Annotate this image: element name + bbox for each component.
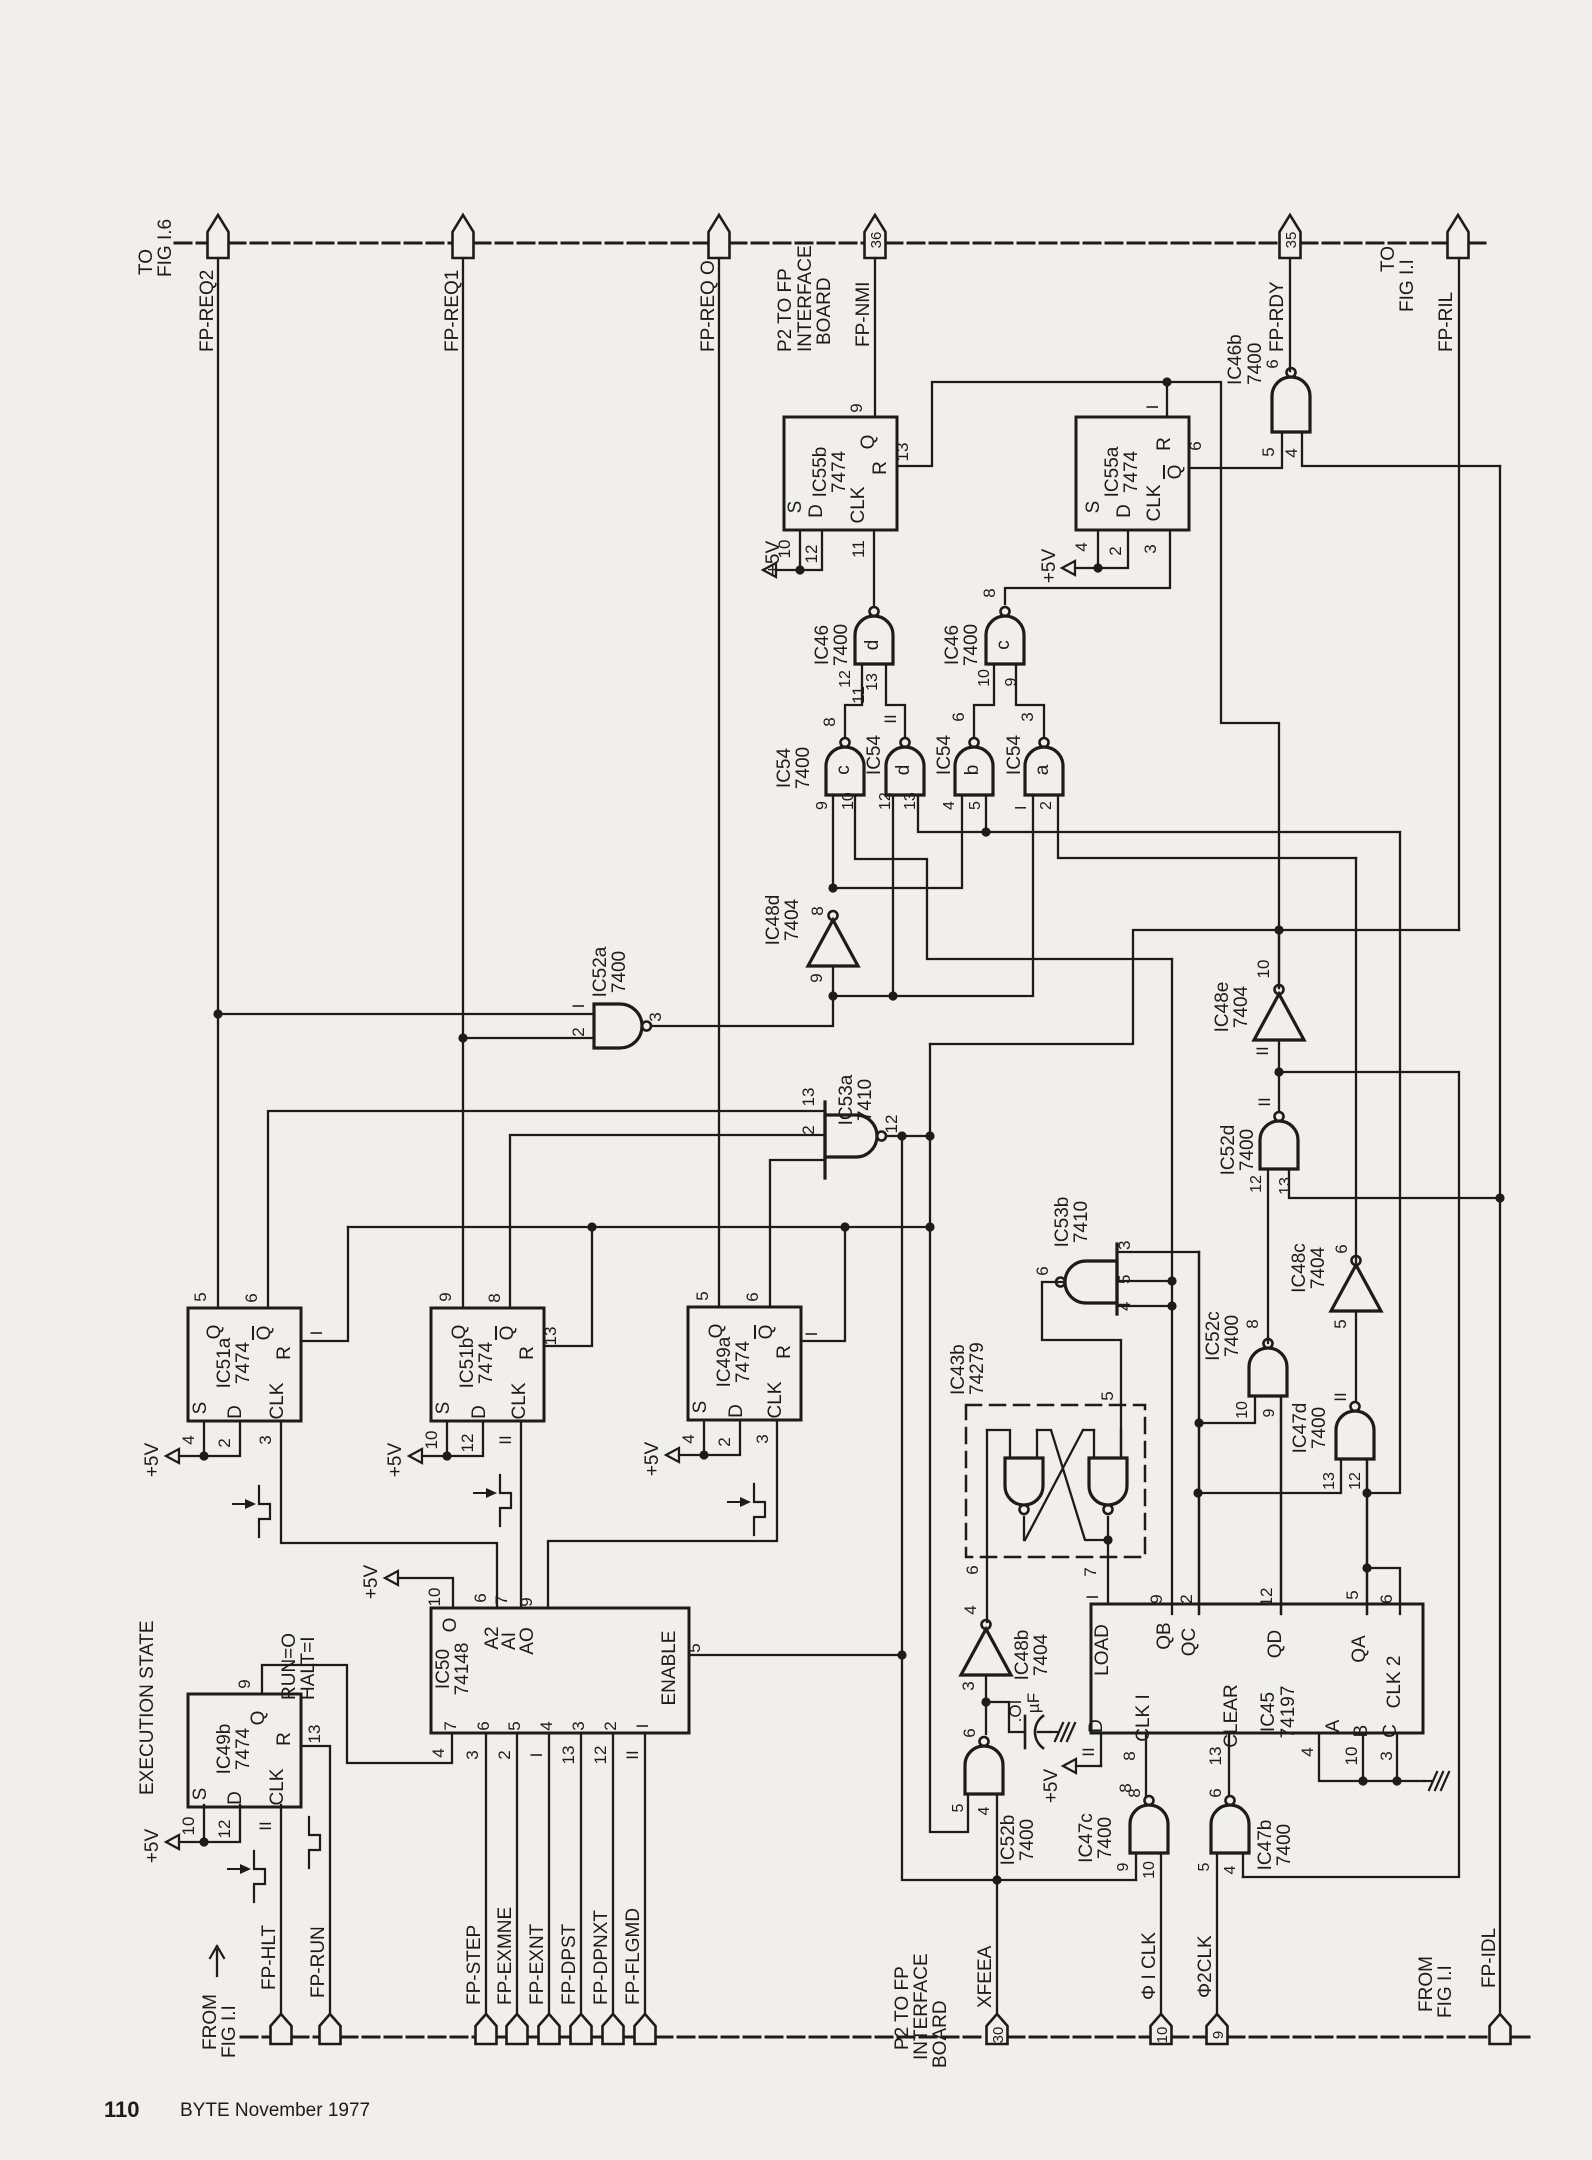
- pin labels IC46b: [1259, 359, 1301, 457]
- wire IC55a D pin 2 jog: [1098, 531, 1128, 568]
- junction QA/IC47d.12 upper: [1362, 1488, 1371, 1497]
- flip-flop IC51b 7474: [431, 1308, 544, 1421]
- node phi 1 CLK label: [1139, 1932, 1160, 2000]
- wire latch cross-coupling: [1024, 1430, 1108, 1540]
- svg-text:74279: 74279: [967, 1342, 988, 1395]
- wire IC49b CLK pin 11 to FP-HLT: [280, 1805, 282, 2014]
- svg-text:I: I: [527, 1753, 546, 1758]
- svg-text:9: 9: [1115, 1862, 1132, 1871]
- svg-text:4: 4: [961, 1605, 980, 1614]
- svg-text:FP-EXMNE: FP-EXMNE: [495, 1907, 516, 2005]
- svg-text:CLK: CLK: [267, 1382, 288, 1419]
- node IC53b designator: [1052, 1197, 1092, 1248]
- junction IC45 B ground: [1358, 1776, 1367, 1785]
- svg-text:I: I: [569, 1004, 588, 1009]
- wire IC50 input to FP-STEP: [485, 1733, 487, 2014]
- junction +5V IC51b: [442, 1451, 451, 1460]
- svg-text:6: 6: [1186, 441, 1205, 450]
- pin labels IC53b: [1033, 1241, 1134, 1311]
- pin labels IC52d: [1248, 1097, 1294, 1195]
- svg-text:D: D: [1086, 1719, 1107, 1733]
- svg-text:D: D: [806, 504, 827, 518]
- wire IC47b output 6 to IC45 CLEAR: [1228, 1733, 1230, 1796]
- svg-text:II: II: [1255, 1097, 1274, 1106]
- wire IC50 input to FP-EXNT: [548, 1733, 550, 2014]
- power +5V at IC50: [361, 1565, 398, 1600]
- wire IC49a Qbar to IC53a.1: [770, 1160, 825, 1307]
- svg-text:36: 36: [868, 232, 885, 249]
- svg-text:S: S: [190, 1788, 211, 1801]
- node FP-REQ2 label: [197, 270, 218, 352]
- pin labels IC52c: [1234, 1319, 1278, 1419]
- svg-text:7410: 7410: [1071, 1201, 1092, 1243]
- svg-text:9: 9: [1003, 677, 1020, 686]
- svg-text:IC47c: IC47c: [1076, 1813, 1097, 1863]
- wire IC51a D pin 2 jog: [204, 1421, 240, 1456]
- svg-text:Q: Q: [1165, 465, 1186, 480]
- svg-text:B: B: [1351, 1725, 1372, 1738]
- wire IC49b Q pin 9 to IC50 input 7: [262, 1665, 452, 1763]
- svg-text:4: 4: [537, 1721, 556, 1730]
- node FP-DPNXT label: [591, 1910, 612, 2005]
- svg-text:5: 5: [685, 1643, 704, 1652]
- connector FP-DPST: [571, 2014, 592, 2044]
- wire IC49b D pin 12 jog: [204, 1805, 240, 1842]
- svg-text:IC55a: IC55a: [1102, 446, 1123, 497]
- node EXECUTION STATE label: [137, 1620, 158, 1795]
- wire IC55b S pin 10: [799, 531, 801, 570]
- junction FP-REQ2 / IC52a input 1: [213, 1009, 222, 1018]
- svg-text:RUN=O: RUN=O: [279, 1633, 300, 1700]
- wire XFEEA line: [902, 1136, 1136, 1880]
- svg-text:10: 10: [1254, 960, 1273, 979]
- junction latch output pin 7: [1103, 1535, 1112, 1544]
- junction ENABLE / XFEEA line: [897, 1650, 906, 1659]
- pin labels IC48b: [959, 1605, 980, 1690]
- node FROM FIG 1.1 label (left): [200, 1994, 240, 2058]
- svg-text:IC47d: IC47d: [1290, 1403, 1311, 1454]
- nand-gate IC43b right (cross-coupled): [1089, 1458, 1127, 1514]
- svg-text:FP-FLGMD: FP-FLGMD: [623, 1908, 644, 2005]
- svg-text:2: 2: [1177, 1594, 1196, 1603]
- svg-text:6: 6: [1332, 1244, 1351, 1253]
- ground at IC45 ABC: [1424, 1772, 1449, 1790]
- node FROM FIG 1.1 label (right): [1416, 1956, 1456, 2018]
- svg-text:IC49a: IC49a: [714, 1336, 735, 1387]
- wire IC47d input 12 to QA: [1366, 1459, 1368, 1614]
- svg-text:FP-REQ O: FP-REQ O: [698, 260, 719, 352]
- nand-gate IC47b 7400: [1211, 1796, 1249, 1853]
- pin label IC50 enable 5: [685, 1643, 704, 1652]
- svg-text:INTERFACE: INTERFACE: [911, 1953, 932, 2060]
- wire IC50 ENABLE pin 5: [689, 1654, 902, 1656]
- wire IC47d input 13 to QC line: [1198, 1459, 1341, 1493]
- node IC47d designator: [1290, 1403, 1330, 1454]
- svg-text:9: 9: [517, 1597, 536, 1606]
- svg-text:IC54: IC54: [934, 735, 955, 776]
- wire IC48b input 3 from IC52b output: [985, 1675, 987, 1734]
- svg-text:4: 4: [1222, 1865, 1239, 1874]
- svg-text:IC52c: IC52c: [1203, 1311, 1224, 1361]
- svg-text:5: 5: [967, 801, 984, 810]
- svg-text:5: 5: [1115, 1275, 1134, 1284]
- wire reset vertical from FP-RIL branch: [929, 1044, 931, 1227]
- svg-text:4: 4: [1298, 1747, 1317, 1756]
- svg-text:13: 13: [893, 443, 912, 462]
- svg-text:74197: 74197: [1278, 1686, 1299, 1739]
- junction +5V IC49b: [199, 1837, 208, 1846]
- junction reset IC51b.R: [587, 1222, 596, 1231]
- node IC52c designator: [1203, 1311, 1243, 1361]
- svg-text:7400: 7400: [1017, 1819, 1038, 1861]
- power +5V at IC51b: [385, 1443, 447, 1478]
- svg-text:II: II: [623, 1750, 642, 1759]
- svg-text:d: d: [862, 640, 883, 651]
- svg-text:7410: 7410: [855, 1079, 876, 1121]
- svg-text:7400: 7400: [1222, 1315, 1243, 1357]
- svg-text:Q: Q: [248, 1711, 269, 1726]
- svg-text:CLK I: CLK I: [1133, 1694, 1154, 1742]
- svg-text:CLEAR: CLEAR: [1221, 1684, 1242, 1747]
- nand-gate IC46d: [855, 607, 893, 664]
- wire dashed interface boundary (top): [175, 242, 1490, 245]
- wire IC49b R pin 13 to FP-RUN: [302, 1746, 330, 2014]
- svg-text:FP-REQ2: FP-REQ2: [197, 270, 218, 352]
- nand-gate IC52a 7400: [594, 1004, 651, 1048]
- pin label IC46c output 8: [980, 588, 999, 597]
- wire IC52c input 10 to QC line: [1199, 1396, 1255, 1423]
- svg-text:XFEEA: XFEEA: [975, 1945, 996, 2008]
- junction IC54c.9-IC54b.4: [828, 883, 837, 892]
- pin labels IC54d inputs: [877, 792, 919, 810]
- svg-text:IC48b: IC48b: [1012, 1630, 1033, 1681]
- pin labels IC45 top: [1083, 1588, 1396, 1607]
- svg-text:13: 13: [864, 673, 881, 691]
- wire latch pin 7 to IC45 LOAD: [1107, 1517, 1109, 1604]
- svg-text:+5V: +5V: [142, 1829, 163, 1864]
- wire IC54a.1 to IC52a output node: [833, 795, 1033, 996]
- svg-text:Q: Q: [204, 1325, 225, 1340]
- nand-gate IC52c 7400: [1249, 1339, 1287, 1396]
- node IC54c designator: [774, 747, 814, 789]
- svg-text:12: 12: [877, 792, 894, 810]
- pin labels IC54b inputs: [941, 801, 984, 810]
- svg-text:P2 TO FP: P2 TO FP: [892, 1966, 913, 2050]
- svg-text:CLK 2: CLK 2: [1384, 1656, 1405, 1709]
- svg-text:D: D: [225, 1791, 246, 1805]
- svg-text:7400: 7400: [961, 624, 982, 666]
- wire IC52d input 12 from IC52c: [1267, 1169, 1269, 1337]
- pin labels IC53a: [798, 1088, 901, 1163]
- pin labels IC47d: [1321, 1392, 1364, 1490]
- svg-text:d: d: [893, 765, 914, 776]
- node FP-HLT label: [259, 1925, 280, 1990]
- node BYTE November 1977: [180, 2100, 370, 2121]
- wire IC54c.9 to IC54b.4: [833, 795, 962, 888]
- svg-text:+5V: +5V: [642, 1442, 663, 1477]
- wire IC55a Qbar 6 to IC46b input 5: [1191, 432, 1282, 468]
- svg-text:2: 2: [601, 1721, 620, 1730]
- wire IC46d input 12 from IC54c: [845, 664, 862, 737]
- flip-flop IC49b 7474: [188, 1694, 301, 1807]
- svg-text:CLK: CLK: [509, 1382, 530, 1419]
- svg-text:7: 7: [1081, 1567, 1100, 1576]
- pin label IC45 CLK1 out8: [1116, 1783, 1135, 1792]
- svg-text:R: R: [274, 1732, 295, 1746]
- wire CLK2 jog: [1367, 1568, 1400, 1614]
- nand-gate IC52b 7400: [965, 1737, 1003, 1794]
- junction reset IC53a.12: [925, 1222, 934, 1231]
- svg-text:6: 6: [963, 1565, 982, 1574]
- symbol pulse FP-RUN: [309, 1817, 320, 1868]
- pin labels IC52b: [950, 1728, 993, 1815]
- svg-text:5: 5: [1259, 447, 1278, 456]
- wire IC51a CLK pin 3 to IC50 A2: [281, 1421, 497, 1608]
- svg-text:12: 12: [802, 545, 821, 564]
- wire IC52a input 1: [218, 1013, 594, 1015]
- junction QC/IC47d.13: [1193, 1488, 1202, 1497]
- wire IC51b R pin 13: [544, 1227, 592, 1346]
- power +5V at IC55a: [1039, 549, 1098, 584]
- svg-text:74148: 74148: [452, 1643, 473, 1696]
- node IC48e designator: [1212, 982, 1252, 1033]
- svg-text:CLK: CLK: [848, 486, 869, 523]
- wire IC47d.12 branch to QA-line top: [1367, 832, 1400, 1493]
- svg-text:IC51a: IC51a: [214, 1337, 235, 1388]
- junction IC48e output on FP-RIL line: [1274, 925, 1283, 934]
- power +5V at IC55b: [763, 541, 800, 577]
- connector FP-RIL: [1448, 215, 1469, 258]
- pin labels IC46d: [837, 670, 881, 691]
- node P2 TO FP INTERFACE BOARD label (top): [775, 245, 835, 352]
- connector FP-EXMNE: [507, 2014, 528, 2044]
- wire FP-REQ2 to IC51a Q pin 5: [217, 258, 219, 1308]
- svg-text:30: 30: [990, 2027, 1007, 2044]
- wire IC55a R pin 1: [1166, 382, 1168, 417]
- node FP-EXMNE label: [495, 1907, 516, 2005]
- node FP-RIL label: [1436, 292, 1457, 352]
- svg-text:II: II: [1253, 1046, 1272, 1055]
- wire branch to IC47b input 4: [1243, 1072, 1459, 1877]
- pin labels IC52a: [569, 1004, 665, 1037]
- svg-text:7404: 7404: [1031, 1633, 1052, 1676]
- svg-text:4: 4: [976, 1806, 993, 1815]
- svg-text:3: 3: [753, 1434, 772, 1443]
- node FP-STEP label: [464, 1925, 485, 2005]
- wire IC47b input 4: [1242, 1853, 1244, 1877]
- junction IC53a output / XFEEA branch: [897, 1131, 906, 1140]
- wire IC55b R 13 to reset node: [897, 382, 1167, 466]
- svg-text:CLK: CLK: [765, 1381, 786, 1418]
- svg-text:13: 13: [1277, 1177, 1294, 1195]
- node TO FIG 1.6 label: [136, 219, 176, 277]
- svg-text:+5V: +5V: [385, 1443, 406, 1478]
- node IC48b designator: [1012, 1630, 1052, 1681]
- wire FP-REQ0 to IC49a Q pin 5: [718, 258, 720, 1307]
- wire IC47b input 5 to phi2 clock: [1216, 1853, 1218, 2014]
- svg-text:Q: Q: [449, 1325, 470, 1340]
- svg-text:S: S: [690, 1401, 711, 1414]
- node FP-NMI label: [853, 282, 874, 347]
- svg-text:CLK: CLK: [1144, 484, 1165, 521]
- node IC53a designator: [836, 1074, 876, 1125]
- wire FP-REQ1 to IC51b Q pin 9: [462, 258, 464, 1308]
- junction +5V IC55a: [1093, 563, 1102, 572]
- svg-text:BOARD: BOARD: [814, 277, 835, 345]
- svg-text:BOARD: BOARD: [930, 2000, 951, 2068]
- wire IC54c.10 to QB line: [855, 795, 1172, 959]
- connector FP-FLGMD: [635, 2014, 656, 2044]
- wire FP-IDL vertical: [1499, 466, 1501, 2014]
- junction QA/CLK2 jog: [1362, 1563, 1371, 1572]
- wire IC50 input to FP-FLGMD: [644, 1733, 646, 2014]
- svg-text:II: II: [881, 714, 900, 723]
- svg-text:4: 4: [679, 1434, 698, 1443]
- svg-text:9: 9: [235, 1679, 254, 1688]
- pin labels IC43b: [963, 1391, 1117, 1576]
- latch IC43b 74279 dashed box: [966, 1405, 1145, 1557]
- svg-text:a: a: [1032, 764, 1053, 775]
- junction QC/IC52c.10: [1194, 1418, 1203, 1427]
- svg-text:7474: 7474: [733, 1340, 754, 1383]
- junction QB/IC53b.4: [1167, 1301, 1176, 1310]
- wire IC53a output 12: [887, 1135, 930, 1137]
- wire IC51a Qbar to IC53a.13: [268, 1111, 825, 1308]
- node RUN=0 HALT=1 label: [279, 1633, 319, 1700]
- svg-text:+5V: +5V: [1041, 1769, 1062, 1804]
- wire IC53b input 3 to QC line: [1117, 1252, 1199, 1614]
- svg-text:IC46: IC46: [942, 625, 963, 665]
- wire QC pin 2 riser: [1198, 1252, 1200, 1614]
- connector FP-STEP: [476, 2014, 497, 2044]
- svg-text:9: 9: [814, 801, 831, 810]
- svg-text:13: 13: [305, 1725, 324, 1744]
- svg-text:5: 5: [1098, 1391, 1117, 1400]
- pin labels IC55a: [1072, 405, 1205, 556]
- wire IC54d.12 to IC52a output node: [892, 795, 894, 996]
- wire IC48c input 5 from IC47d output: [1355, 1311, 1357, 1400]
- svg-text:ENABLE: ENABLE: [659, 1631, 680, 1706]
- symbol clock edge IC51a: [233, 1486, 270, 1537]
- svg-text:Q: Q: [858, 435, 879, 450]
- svg-text:7474: 7474: [476, 1341, 497, 1384]
- svg-text:2: 2: [215, 1438, 234, 1447]
- wire IC53b input 5: [1117, 1280, 1172, 1282]
- connector FP-REQ0: [709, 215, 730, 258]
- pin labels IC46c: [976, 669, 1020, 687]
- svg-text:13: 13: [559, 1746, 578, 1765]
- svg-text:5: 5: [950, 1803, 967, 1812]
- symbol clock edge IC49b: [228, 1851, 265, 1902]
- wire FP-RDY to IC46b output 6: [1289, 258, 1291, 371]
- svg-text:2: 2: [495, 1750, 514, 1759]
- svg-text:IC52b: IC52b: [998, 1815, 1019, 1866]
- svg-text:D: D: [726, 1404, 747, 1418]
- svg-text:II: II: [1331, 1392, 1350, 1401]
- svg-text:FROM: FROM: [1416, 1956, 1437, 2012]
- svg-text:9: 9: [1147, 1594, 1166, 1603]
- svg-text:I: I: [307, 1331, 326, 1336]
- power +5V at IC49a: [642, 1442, 704, 1477]
- svg-text:I: I: [1143, 405, 1162, 410]
- svg-text:INTERFACE: INTERFACE: [795, 245, 816, 352]
- svg-text:IC54: IC54: [774, 748, 795, 789]
- nand-gate IC46b: [1272, 368, 1310, 432]
- svg-text:I: I: [1083, 1595, 1102, 1600]
- junction +5V IC51a: [199, 1451, 208, 1460]
- svg-text:IC48c: IC48c: [1289, 1243, 1310, 1293]
- pin labels IC50 top: [425, 1588, 536, 1607]
- node IC46b designator label: [1225, 334, 1266, 385]
- pin labels IC54a inputs: [1013, 801, 1055, 810]
- node IC46c designator: [942, 624, 982, 666]
- svg-text:3: 3: [959, 1681, 978, 1690]
- wire IC48d input 9: [832, 966, 834, 996]
- svg-text:c: c: [833, 765, 854, 775]
- svg-text:3: 3: [646, 1012, 665, 1021]
- svg-text:13: 13: [541, 1327, 560, 1346]
- svg-text:6: 6: [960, 1728, 979, 1737]
- pin labels IC47c: [1115, 1788, 1158, 1879]
- junction capacitor tap: [981, 1697, 990, 1706]
- svg-text:12: 12: [1248, 1175, 1265, 1193]
- wire IC52c input 9 to QD: [1280, 1396, 1282, 1614]
- wire IC51b S pin 10: [446, 1421, 448, 1456]
- pin labels IC55b: [775, 403, 912, 704]
- node TO FIG 1.1 label: [1378, 246, 1418, 312]
- node FP-IDL label: [1479, 1928, 1500, 1988]
- encoder IC50 74148: [431, 1608, 689, 1733]
- pin labels IC49a: [679, 1291, 821, 1446]
- svg-text:8: 8: [485, 1293, 504, 1302]
- connector phi-1-CLK pin 10: [1151, 2014, 1172, 2044]
- wire to capacitor C: [986, 1702, 1025, 1732]
- svg-text:6: 6: [743, 1292, 762, 1301]
- svg-text:12: 12: [882, 1115, 901, 1134]
- svg-text:FIG I.6: FIG I.6: [155, 219, 176, 277]
- svg-text:6: 6: [1206, 1788, 1225, 1797]
- wire IC50 input to FP-DPNXT: [612, 1733, 614, 2014]
- svg-text:5: 5: [505, 1721, 524, 1730]
- wire IC52b input 4 to XFEEA connector: [996, 1794, 998, 2014]
- power +5V at IC51a: [142, 1443, 204, 1478]
- symbol arrow up: [210, 1946, 224, 1976]
- wire IC51a S pin 4: [203, 1421, 205, 1456]
- svg-text:TO: TO: [1378, 246, 1399, 272]
- wire +5V to IC50 pin 10: [398, 1578, 453, 1608]
- svg-text:13: 13: [1321, 1472, 1338, 1490]
- svg-text:7474: 7474: [829, 450, 850, 493]
- node capacitor value label: [1006, 1693, 1043, 1722]
- node IC48c designator: [1289, 1243, 1329, 1293]
- node FP-REQ1 label: [442, 270, 463, 352]
- node IC52a designator: [590, 946, 630, 997]
- svg-text:IC54: IC54: [1004, 735, 1025, 776]
- svg-text:IC48d: IC48d: [763, 895, 784, 946]
- svg-text:13: 13: [799, 1088, 818, 1107]
- wire IC52a input 2: [463, 1037, 594, 1039]
- wire IC49a R pin 1: [801, 1227, 845, 1341]
- svg-text:7400: 7400: [1095, 1817, 1116, 1859]
- flip-flop IC49a 7474: [688, 1307, 801, 1420]
- nand-gate IC54d: [886, 738, 924, 795]
- wire IC49a S pin 4: [703, 1420, 705, 1455]
- pin labels IC48d: [807, 906, 827, 982]
- svg-text:TO: TO: [136, 249, 157, 275]
- pin labels IC45 bottom: [1079, 1747, 1396, 1766]
- junction IC54b.5 on QA line: [981, 827, 990, 836]
- svg-text:12: 12: [1257, 1588, 1276, 1607]
